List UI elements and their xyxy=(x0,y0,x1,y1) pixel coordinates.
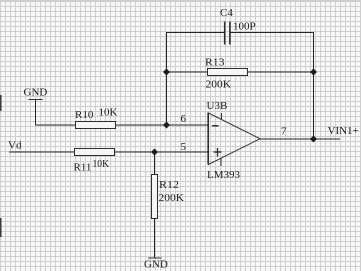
edge artifact segment lower-left xyxy=(0,218,2,237)
svg-text:200K: 200K xyxy=(159,192,185,204)
resistor R13 body xyxy=(208,69,248,76)
svg-text:5: 5 xyxy=(181,141,187,153)
svg-text:GND: GND xyxy=(24,87,48,99)
junction: right vertical / R13 wire xyxy=(310,69,317,76)
op-amp power pin stub (top) xyxy=(221,113,223,120)
junction: right vertical / output wire xyxy=(310,136,317,143)
svg-text:10K: 10K xyxy=(99,107,118,119)
wire: R12 bottom lead xyxy=(154,219,156,259)
wire: right feedback vertical xyxy=(313,33,315,140)
svg-text:Vd: Vd xyxy=(8,140,22,152)
wire: left feedback vertical xyxy=(166,32,168,126)
svg-text:VIN1+: VIN1+ xyxy=(328,125,359,137)
junction: Vd wire / R12 branch xyxy=(151,149,158,156)
resistor R10 body xyxy=(76,122,116,129)
svg-text:C4: C4 xyxy=(220,7,233,19)
svg-text:100P: 100P xyxy=(233,21,256,33)
capacitor C4 left plate xyxy=(224,22,226,45)
ground bar (bottom GND power port) xyxy=(148,257,162,259)
wire: output net to VIN1+ xyxy=(260,138,340,140)
op-amp power pin stub (bottom) xyxy=(220,158,222,166)
svg-text:R13: R13 xyxy=(205,57,225,69)
op-amp minus sign (inverting input) xyxy=(212,125,219,127)
wire: inverting input net (pin 6) xyxy=(35,124,209,126)
wire: R13 right segment xyxy=(248,71,314,73)
wire: C4 right segment xyxy=(230,32,314,34)
svg-text:U3B: U3B xyxy=(207,100,228,112)
svg-text:LM393: LM393 xyxy=(207,169,241,181)
junction: left vertical / pin6 wire xyxy=(163,122,170,129)
svg-text:10K: 10K xyxy=(93,158,110,170)
wire: R13 left segment xyxy=(167,71,209,73)
svg-text:R12: R12 xyxy=(159,179,179,191)
op-amp plus sign (non-inverting input) xyxy=(214,148,222,157)
svg-text:GND: GND xyxy=(144,259,168,271)
wire: GND drop to pin6 net xyxy=(35,100,37,126)
wire: Vd net to pin 5 xyxy=(9,151,209,153)
resistor R12 body xyxy=(152,175,158,219)
junction: left vertical / R13 wire xyxy=(163,69,170,76)
svg-text:200K: 200K xyxy=(206,79,232,91)
wire: R12 top lead xyxy=(154,152,156,175)
svg-text:R11: R11 xyxy=(74,162,92,174)
ground bar (top GND power port) xyxy=(29,99,43,101)
resistor R11 body xyxy=(75,149,115,156)
op-amp left edge emphasis xyxy=(207,113,209,165)
svg-text:6: 6 xyxy=(181,113,187,125)
edge artifact segment upper-left xyxy=(0,95,2,111)
svg-text:R10: R10 xyxy=(75,109,94,121)
svg-text:7: 7 xyxy=(281,126,287,138)
wire: C4 left segment xyxy=(167,32,225,34)
op-amp U1 triangle body xyxy=(209,113,261,165)
capacitor C4 right plate xyxy=(229,22,231,45)
